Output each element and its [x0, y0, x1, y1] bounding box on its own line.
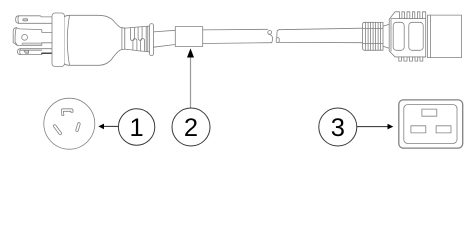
twist-lock bottom-right slot — [76, 123, 80, 132]
C19 outlet outer — [399, 100, 463, 148]
bottom prong thick base line — [42, 52, 53, 54]
C19 slot bottom-left — [411, 126, 426, 133]
callout 1 circle — [118, 109, 154, 145]
C20 grip right — [409, 22, 423, 50]
bottom prong cap line — [19, 49, 22, 55]
right strain relief block — [363, 22, 383, 50]
top prong blade — [16, 16, 52, 23]
svg-text:3: 3 — [331, 114, 345, 142]
middle prong blade — [13, 28, 52, 46]
plug body — [65, 15, 125, 65]
callout 3 arrow — [357, 124, 394, 130]
middle prong cap line — [15, 28, 17, 46]
cable segment mid — [203, 42, 272, 45]
bottom prong bevel line — [21, 49, 42, 51]
bottom prong blade — [18, 49, 53, 55]
C19 slot top — [422, 109, 437, 116]
strain relief left edge — [124, 28, 126, 49]
cord flange — [150, 24, 154, 56]
top prong cap line — [17, 16, 20, 23]
rib end verticals — [146, 26, 148, 52]
top prong slot — [23, 19, 28, 21]
callout 2 circle — [172, 108, 210, 146]
strain relief bottom edge — [125, 49, 150, 52]
plug body rim line — [67, 15, 69, 65]
rib hanging U 2 — [138, 27, 142, 40]
cable label tag — [175, 27, 202, 47]
svg-text:1: 1 — [130, 114, 144, 142]
C20 inner panel lines — [391, 19, 426, 57]
plug neck lip — [121, 28, 123, 49]
callout 1 arrow — [98, 124, 118, 130]
right neck flare — [383, 24, 389, 48]
twist-lock top L slot — [61, 109, 73, 116]
cable break right end — [277, 30, 280, 38]
middle prong shadow — [22, 43, 42, 45]
C20 end cap — [427, 15, 461, 58]
strain relief top edge — [125, 26, 150, 28]
bottom prong slot — [24, 50, 29, 53]
C19 outlet inner — [404, 105, 457, 144]
cable segment right — [279, 28, 363, 43]
strain relief outline — [125, 26, 150, 52]
C20 connector body silhouette — [389, 12, 426, 61]
plug face plate — [52, 13, 65, 67]
C20 end cap seam — [430, 15, 432, 58]
callout 2 arrowhead — [187, 48, 194, 57]
callout 2 leader line — [190, 56, 192, 109]
twist-lock bottom-left slot — [53, 125, 61, 135]
rib hanging U 1 — [130, 28, 134, 41]
twist-lock face circle — [44, 98, 95, 149]
cable segment left — [154, 30, 176, 47]
C20 grip left — [393, 22, 404, 50]
callout 3 circle — [319, 108, 357, 146]
right strain relief ribs — [363, 22, 383, 50]
rib rising U 2 — [141, 38, 145, 51]
middle prong hole — [22, 34, 28, 40]
svg-text:2: 2 — [184, 114, 198, 142]
cable break left end — [203, 28, 268, 31]
rib rising U 1 — [133, 39, 137, 51]
C19 slot bottom-right — [436, 126, 451, 133]
